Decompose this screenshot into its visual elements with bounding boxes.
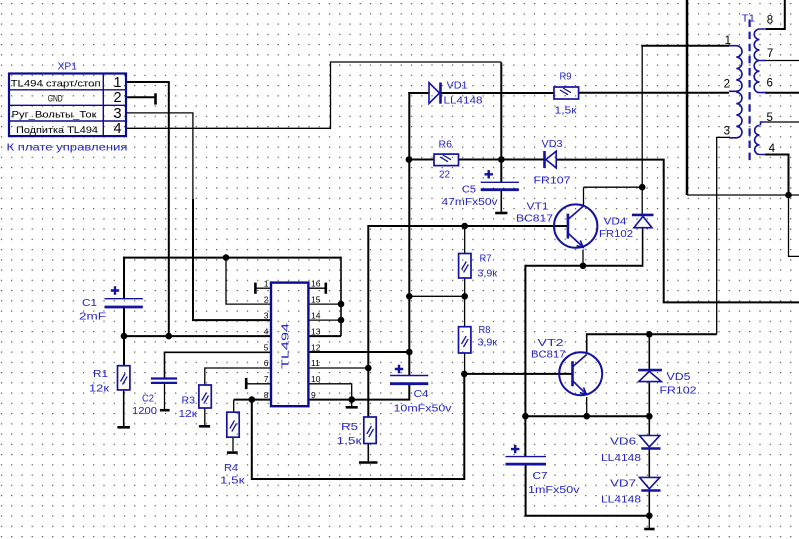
svg-text:FR107: FR107 — [534, 176, 572, 187]
svg-text:8: 8 — [767, 15, 773, 27]
wire feed net down to R6/VD3/C5 node — [500, 63, 502, 183]
svg-text:XP1: XP1 — [58, 62, 78, 73]
svg-text:R4: R4 — [224, 463, 238, 474]
TL494 left pin numbers — [264, 278, 269, 399]
svg-text:VD1: VD1 — [447, 81, 468, 92]
wire VCC vertical VD1/R6/pin12/C4 — [408, 92, 410, 376]
ground bar under C2 — [160, 409, 170, 412]
svg-text:VD5: VD5 — [667, 372, 692, 383]
svg-text:4: 4 — [264, 326, 269, 336]
terminal bar under C5 — [495, 212, 507, 215]
wire TL494 pin7 stub — [246, 383, 271, 385]
wire VT2 emitter rail — [525, 415, 649, 417]
svg-text:7: 7 — [264, 374, 269, 384]
diode VD1 — [429, 83, 441, 104]
svg-text:7: 7 — [767, 48, 773, 60]
capacitor C4 — [390, 365, 428, 384]
wire R4 top stub — [233, 400, 235, 413]
capacitor C1 — [105, 286, 143, 307]
svg-text:LL4148: LL4148 — [444, 96, 484, 107]
svg-text:GND: GND — [48, 93, 63, 104]
svg-text:R9: R9 — [560, 72, 572, 83]
svg-text:1: 1 — [264, 278, 269, 288]
wire TL494 pin1 stub — [255, 287, 270, 289]
resistor R9 — [554, 87, 579, 99]
svg-text:5: 5 — [264, 343, 269, 353]
wire VD1 anode stub — [408, 92, 429, 94]
diode VD5 — [638, 370, 662, 382]
connector XP1 — [9, 74, 126, 137]
wire R6 left stub — [409, 159, 434, 161]
svg-text:R5: R5 — [341, 422, 359, 433]
svg-text:BC817: BC817 — [531, 350, 566, 361]
T1 core — [748, 20, 750, 161]
wire VT1 base from pin11 rail — [368, 225, 568, 227]
T1 secondary winding 8-7-6 — [754, 29, 766, 93]
terminal bar below rail — [644, 528, 654, 531]
svg-text:3,9к: 3,9к — [478, 338, 498, 349]
terminal stub below rail — [648, 516, 650, 528]
wire pin11 rail vertical down to R5 — [367, 225, 369, 417]
svg-text:12к: 12к — [179, 409, 198, 420]
ground bar under R3 — [199, 425, 210, 428]
wire VCC jumper to R7/R8 rail — [409, 295, 464, 297]
wire VD5 stubs — [648, 334, 650, 416]
wire T1 pin3 lead down — [717, 137, 729, 334]
svg-text:VT2: VT2 — [538, 338, 565, 349]
T1 secondary winding 5-4 — [755, 122, 765, 155]
T1 primary winding 1-2 — [729, 46, 742, 92]
svg-text:1mFx50v: 1mFx50v — [528, 485, 580, 496]
diode VD7 — [640, 477, 661, 490]
wire emitter rail down to C7 — [524, 265, 526, 457]
svg-text:14: 14 — [311, 310, 321, 320]
svg-text:C1: C1 — [82, 298, 97, 309]
wire VD3 cathode-side to right edge — [556, 160, 799, 303]
svg-text:FR102: FR102 — [660, 386, 698, 397]
resistor R3 — [199, 385, 211, 408]
svg-text:Подпитка TL494: Подпитка TL494 — [16, 125, 98, 136]
wire T1 pin4 lead down — [765, 155, 789, 196]
wire T1 pin6 lead to right edge — [765, 92, 799, 94]
svg-text:3: 3 — [264, 310, 269, 320]
transistor VT2 — [559, 352, 602, 395]
svg-text:1200: 1200 — [132, 406, 157, 417]
svg-text:VT1: VT1 — [527, 202, 550, 213]
ground bar under pin9/10 — [346, 406, 358, 409]
ground stub under pin9/10 — [351, 400, 353, 406]
TL494 right pin numbers — [311, 278, 321, 399]
svg-text:3: 3 — [113, 106, 121, 122]
svg-text:R1: R1 — [93, 369, 108, 380]
terminal bar TL494 pin16 — [324, 283, 327, 294]
svg-text:C4: C4 — [414, 389, 429, 400]
ground bar under R4 — [227, 451, 238, 454]
wire from supply vertical to pin4 node — [687, 194, 789, 196]
wire TL494 pin8 net to R4 — [234, 399, 271, 401]
wire TL494 pin4 net — [124, 335, 271, 337]
svg-text:10: 10 — [311, 374, 321, 384]
wire XP1 pin2 GND stub — [127, 96, 155, 98]
svg-text:3,9к: 3,9к — [478, 269, 498, 280]
svg-text:22: 22 — [439, 170, 450, 181]
svg-text:2mF: 2mF — [79, 312, 106, 323]
svg-text:4: 4 — [769, 143, 776, 155]
svg-text:1,5к: 1,5к — [337, 436, 363, 447]
wire R5 bottom stub — [367, 444, 369, 462]
wire TL494 pin15 stub — [309, 303, 341, 305]
ground bar under R5 — [359, 461, 378, 464]
terminal bar XP1 pin2 — [154, 93, 157, 104]
svg-text:5: 5 — [767, 112, 773, 124]
svg-text:6: 6 — [264, 358, 269, 368]
diode VD3 — [545, 151, 557, 168]
ground bar under R1 — [117, 426, 129, 429]
wire R9 to T1 pin2 — [579, 92, 729, 94]
svg-text:C7: C7 — [533, 471, 548, 482]
wire TL494 pin11 stub — [309, 367, 369, 369]
svg-text:VD7: VD7 — [610, 479, 637, 490]
svg-text:15: 15 — [311, 294, 321, 304]
T1 pin numbers — [724, 15, 776, 156]
resistor R8 — [459, 327, 471, 353]
svg-text:1: 1 — [725, 35, 731, 47]
IC U1 TL494 — [271, 283, 308, 407]
svg-text:3: 3 — [724, 126, 730, 138]
diode VD4 — [632, 215, 654, 228]
wire VT1 emitter vertical — [582, 250, 584, 266]
capacitor C2 — [151, 379, 177, 383]
diode VD6 — [640, 436, 661, 449]
wire VT2 emitter vertical — [586, 397, 588, 416]
svg-text:TL494 старт/стоп: TL494 старт/стоп — [11, 78, 101, 89]
svg-text:8: 8 — [264, 390, 269, 400]
svg-text:9: 9 — [311, 390, 316, 400]
svg-text:Руг_Вольты_Ток: Руг_Вольты_Ток — [12, 109, 98, 120]
svg-text:11: 11 — [311, 358, 320, 368]
capacitor C7 — [506, 445, 547, 464]
svg-text:13: 13 — [311, 326, 321, 336]
svg-text:12: 12 — [311, 343, 321, 353]
wire Vref net y257 — [124, 257, 341, 259]
wire C5 bottom stub — [500, 190, 502, 212]
T1 primary winding 2-3 — [729, 92, 742, 138]
svg-text:VD4: VD4 — [604, 217, 628, 228]
svg-text:47mFx50v: 47mFx50v — [442, 197, 498, 208]
resistor R4 — [227, 412, 239, 437]
wire C1 top stub — [123, 257, 125, 299]
wire TL494 pin16 stub — [309, 287, 326, 289]
svg-text:16: 16 — [311, 278, 321, 288]
svg-text:TL494: TL494 — [281, 322, 292, 369]
wire VD4 bottom stub — [642, 228, 644, 267]
wire R7 stubs — [464, 226, 466, 296]
wire VT1 emitter rail — [525, 265, 642, 267]
svg-text:VD6: VD6 — [610, 437, 637, 448]
wire VT2 collector vertical — [586, 333, 588, 353]
wire TL494 pin5 to C2 — [165, 352, 271, 378]
resistor R6 — [434, 154, 459, 166]
capacitor C5 — [481, 170, 519, 190]
wire T1 pin5 lead to right edge — [765, 121, 799, 123]
terminal bar TL494 pin7 — [245, 378, 248, 389]
wire VD5/VT2 collector net — [587, 333, 717, 335]
wire R3 bottom stub — [204, 408, 206, 425]
wire TL494 pin14 stub — [309, 319, 341, 321]
svg-text:2: 2 — [113, 90, 121, 106]
svg-text:1: 1 — [113, 75, 121, 91]
wire R8 stubs — [464, 296, 466, 374]
svg-text:12к: 12к — [89, 384, 110, 395]
wire XP1 pin3 to TL494 pin3 (thick part) — [193, 199, 271, 320]
wire R1 bottom stub — [123, 390, 125, 426]
wire C2 bottom stub — [164, 383, 166, 409]
wire TL494 pin6 to R3 — [205, 368, 271, 385]
wire T1 pin1 down to VD4/VT1 collector — [641, 46, 643, 214]
wire C7 bottom rail — [526, 464, 650, 516]
transistor VT1 — [554, 204, 597, 247]
wire top supply vertical to right nodes — [686, 0, 689, 195]
svg-text:LL4148: LL4148 — [601, 453, 642, 464]
wire VD1 cathode to R9 — [441, 92, 554, 94]
wire C1 bottom to R1 — [123, 307, 125, 366]
svg-text:C2: C2 — [142, 394, 154, 405]
wire VT1 collector horizontal — [584, 187, 643, 206]
wire XP1 pin3 (thin part) — [127, 113, 193, 200]
wire VD6 stubs — [648, 416, 650, 515]
svg-text:BC817: BC817 — [516, 214, 554, 225]
svg-text:LL4148: LL4148 — [601, 495, 642, 506]
svg-text:R3: R3 — [182, 396, 196, 407]
resistor R1 — [118, 366, 130, 390]
svg-text:C5: C5 — [462, 185, 476, 196]
wire XP1 pin4 feed net — [127, 62, 502, 128]
wire TL494 pin9 to C4 bottom — [309, 384, 410, 400]
wire R4 bottom stub — [232, 437, 234, 451]
wire T1 pin7 lead to right edge — [765, 60, 799, 62]
svg-text:6: 6 — [767, 77, 773, 89]
wire Vref to TL494 pin2 — [226, 258, 271, 305]
wire T1 pin1 lead — [641, 45, 729, 47]
svg-text:FR102: FR102 — [599, 229, 633, 240]
wire XP1 pin1 to TL494 pin4 net — [127, 82, 169, 336]
wire R6 right to VD3 node — [459, 159, 545, 161]
wire node to right edge — [789, 195, 799, 256]
svg-text:R8: R8 — [479, 325, 491, 336]
svg-text:4: 4 — [113, 121, 121, 137]
wire T1 pin8 lead up — [766, 0, 785, 29]
wire TL494 pin10 stub down — [309, 384, 352, 400]
wire VT2 base — [464, 373, 572, 375]
terminal bar TL494 pin1 — [254, 283, 257, 294]
svg-text:2: 2 — [264, 294, 269, 304]
svg-text:T1: T1 — [742, 14, 756, 25]
svg-text:R6: R6 — [439, 140, 453, 151]
wire pin8 net down-around to VT2 base — [252, 374, 464, 479]
svg-text:VD3: VD3 — [542, 139, 563, 150]
svg-text:К плате управления: К плате управления — [7, 143, 128, 154]
svg-text:2: 2 — [724, 79, 730, 91]
resistor R7 — [459, 254, 471, 279]
transformer T1 — [729, 20, 766, 161]
resistor R5 — [364, 417, 376, 444]
svg-text:1,5к: 1,5к — [220, 476, 245, 487]
wire TL494 pin12 to VCC — [309, 351, 410, 353]
svg-text:10mFx50v: 10mFx50v — [394, 404, 452, 415]
svg-text:1,5к: 1,5к — [555, 106, 578, 117]
svg-text:R7: R7 — [480, 254, 492, 265]
